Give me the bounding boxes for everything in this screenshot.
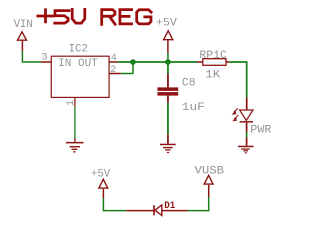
junction dot A	[130, 59, 136, 65]
svg-text:C8: C8	[182, 78, 196, 90]
wire VUSB to diode	[188, 197, 209, 211]
wire VIN to IC2 pin3	[22, 51, 41, 62]
svg-text:2: 2	[110, 65, 116, 76]
wire resistor to LED	[229, 62, 246, 98]
svg-text:1K: 1K	[205, 70, 221, 82]
svg-text:VUSB: VUSB	[195, 166, 225, 178]
title +5V REG	[38, 9, 151, 24]
LED arrows	[232, 108, 239, 121]
diode D1	[126, 201, 187, 216]
svg-text:1uF: 1uF	[182, 102, 205, 114]
svg-text:IC2: IC2	[69, 44, 88, 56]
wire pin4 net to resistor	[118, 61, 198, 63]
wire +5V to diode	[103, 198, 126, 211]
svg-text:VIN: VIN	[14, 19, 33, 31]
svg-text:+5V: +5V	[91, 168, 111, 180]
LED PWR	[232, 98, 273, 137]
svg-text:PWR: PWR	[250, 125, 272, 137]
wire LED to ground	[246, 132, 248, 137]
ground under LED	[238, 137, 254, 153]
supply symbol +5V (bottom)	[91, 168, 111, 198]
supply symbol +5V (top)	[156, 18, 178, 62]
voltage regulator IC2	[51, 44, 109, 98]
svg-text:+5V: +5V	[156, 18, 178, 30]
supply symbol VIN	[14, 19, 33, 51]
supply symbol VUSB	[195, 166, 225, 198]
wire C8 to ground	[167, 103, 169, 135]
svg-text:IN OUT: IN OUT	[58, 58, 98, 70]
wire pin2 to net	[121, 62, 133, 74]
wire pin1 to ground	[74, 107, 76, 139]
capacitor C8	[157, 62, 204, 114]
resistor RP1C	[198, 50, 230, 82]
ground under IC2	[66, 138, 84, 153]
ground under C8	[160, 134, 176, 153]
junction dot B	[165, 59, 171, 65]
